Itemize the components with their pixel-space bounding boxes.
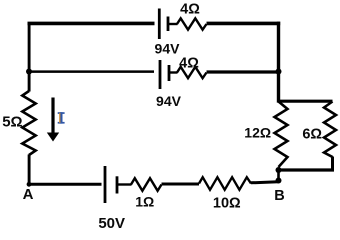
svg-text:A: A (23, 186, 34, 203)
svg-text:5Ω: 5Ω (2, 113, 22, 130)
svg-text:12Ω: 12Ω (244, 124, 271, 140)
svg-text:6Ω: 6Ω (302, 126, 322, 142)
svg-text:4Ω: 4Ω (179, 55, 199, 71)
svg-text:94V: 94V (156, 93, 182, 109)
svg-text:1Ω: 1Ω (135, 194, 154, 210)
svg-text:4Ω: 4Ω (180, 2, 200, 18)
svg-text:10Ω: 10Ω (213, 196, 241, 212)
svg-text:B: B (274, 188, 284, 204)
svg-text:50V: 50V (98, 215, 125, 231)
svg-text:94V: 94V (155, 41, 181, 57)
